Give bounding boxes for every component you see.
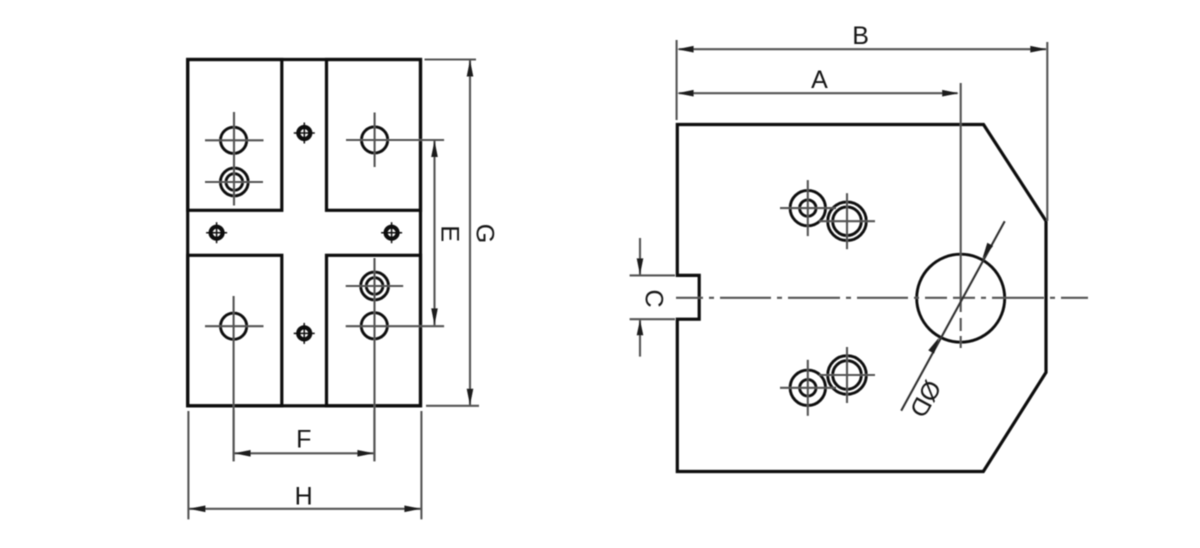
target symbol top channel [294, 123, 315, 144]
dimension C top leader line [639, 238, 641, 275]
right view hole lower-right outer [828, 356, 867, 395]
dimension G line [469, 60, 471, 406]
arrow G bottom [467, 389, 474, 406]
arrow B left [677, 46, 694, 53]
crosshair lower-left hole vertical [807, 360, 809, 416]
hole top-right [362, 127, 388, 153]
right view hole upper-left inner [800, 200, 816, 216]
svg-text:E: E [435, 225, 463, 242]
hole bottom-right lower [361, 313, 387, 339]
centerline vertical top-left holes [233, 112, 235, 206]
arrow F left [234, 450, 251, 457]
svg-text:C: C [640, 290, 668, 308]
centerline horizontal hole top-left lower [205, 181, 263, 183]
arrow D lower pointing to circle [928, 338, 939, 354]
arrow E bottom [431, 308, 438, 325]
arrow C bottom pointing up [637, 320, 644, 336]
right view hole upper-left outer [790, 190, 825, 225]
dimension H left extension line [187, 411, 189, 519]
target symbol bottom channel [294, 323, 315, 344]
crosshair upper-left hole vertical [807, 180, 809, 236]
crosshair upper-right hole horizontal [819, 220, 875, 222]
arrow H right [404, 506, 421, 513]
right view big bore circle [917, 254, 1005, 342]
svg-text:F: F [296, 425, 311, 453]
dimension G top extension line [425, 58, 477, 60]
counterbored hole bottom-right upper outer [361, 272, 389, 300]
counterbored hole top-left lower inner [226, 174, 243, 191]
right view hole upper-right outer [828, 202, 867, 241]
dimension G bottom extension line [426, 405, 479, 407]
dimension B line [679, 48, 1046, 50]
crosshair upper-right hole vertical [846, 193, 848, 249]
right view hole lower-left inner [800, 380, 816, 396]
arrow D upper pointing to circle [982, 243, 993, 259]
svg-text:H: H [295, 482, 313, 510]
right view hole lower-left outer [790, 370, 825, 405]
target symbol middle-left [206, 222, 227, 243]
arrow G top [467, 60, 474, 77]
centerline horizontal hole bottom-right upper [346, 285, 404, 287]
left view pad top-left [188, 60, 282, 211]
horizontal dash-dot centerline [676, 297, 1088, 299]
centerline horizontal hole bottom-left [205, 325, 264, 327]
centerline vertical hole top-right [374, 113, 376, 168]
dimension E line [433, 140, 435, 325]
dimension B left extension line [676, 40, 678, 120]
hole top-left upper [221, 127, 247, 153]
svg-text:ØD: ØD [904, 375, 947, 421]
crosshair lower-right hole horizontal [819, 374, 875, 376]
dimension C bottom leader line [639, 320, 641, 357]
right view hole lower-right inner [833, 361, 862, 390]
dimension A line [679, 92, 958, 94]
dimension H line [188, 508, 421, 510]
centerline horizontal hole bottom-right lower with E extension [346, 325, 444, 327]
left view pad top-right [327, 60, 421, 211]
arrow A left [677, 90, 694, 97]
counterbored hole bottom-right upper inner [366, 278, 383, 295]
counterbored hole top-left lower outer [220, 168, 248, 196]
crosshair lower-left hole horizontal [780, 387, 836, 389]
dimension H right extension line [420, 411, 422, 519]
svg-text:B: B [852, 22, 869, 50]
right view hole upper-right inner [833, 207, 862, 236]
arrow F right [357, 450, 374, 457]
arrow E top [431, 141, 438, 158]
crosshair lower-right hole vertical [846, 347, 848, 403]
dimension B right extension line [1046, 42, 1048, 221]
vertical centerline through bore / A extension [960, 83, 962, 348]
left view outer body rect [188, 60, 421, 406]
centerline horizontal hole top-right with E extension [346, 139, 444, 141]
crosshair upper-left hole horizontal [780, 207, 836, 209]
left view pad bottom-right [327, 255, 421, 405]
centerline vertical bottom-right holes with F extension [373, 258, 375, 461]
diameter D leader diagonal line [901, 221, 1005, 411]
left view pad bottom-left [188, 255, 282, 405]
dimension C top extension line [630, 274, 675, 276]
dimension F left extension line [233, 410, 235, 461]
centerline vertical bottom-left hole with F extension [233, 296, 235, 461]
centerline horizontal hole top-left upper [205, 139, 264, 141]
dimension C bottom extension line [630, 318, 675, 320]
svg-text:A: A [811, 66, 828, 94]
dimension F line [234, 452, 375, 454]
right view part outline [677, 125, 1046, 472]
arrow C top pointing down [637, 258, 644, 275]
svg-text:G: G [471, 224, 499, 243]
target symbol middle-right [381, 222, 402, 243]
hole bottom-left [221, 313, 247, 339]
arrow A right [942, 90, 959, 97]
arrow H left [189, 506, 206, 513]
arrow B right [1030, 46, 1047, 53]
dimension F right extension line [373, 410, 375, 461]
